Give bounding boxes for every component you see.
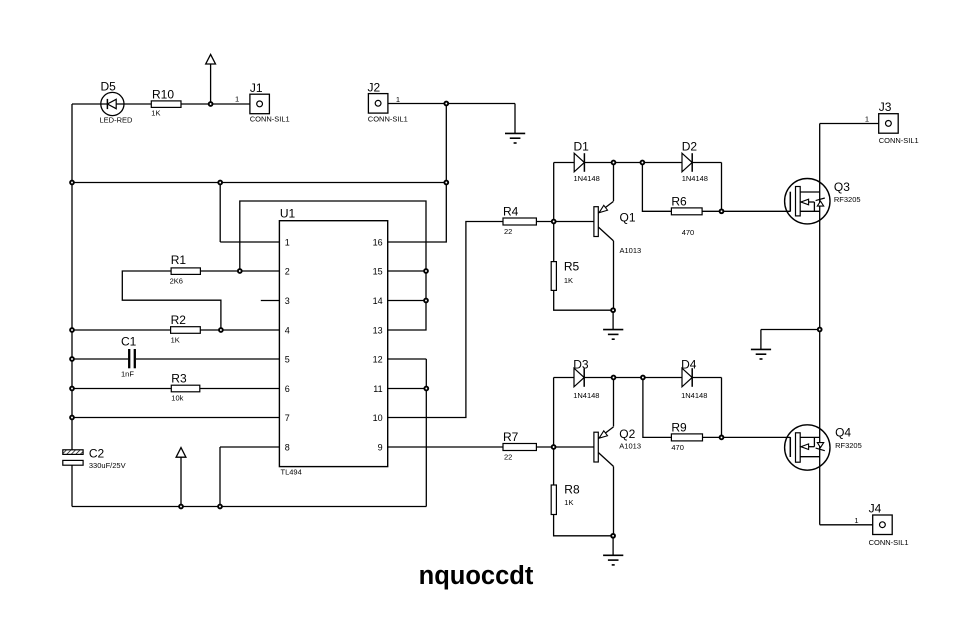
svg-text:J4: J4: [869, 502, 882, 516]
svg-text:J2: J2: [368, 81, 381, 95]
svg-text:1N4148: 1N4148: [681, 391, 707, 400]
svg-text:Q2: Q2: [619, 427, 635, 441]
svg-text:RF3205: RF3205: [834, 195, 861, 204]
svg-text:470: 470: [671, 443, 684, 452]
svg-text:Q3: Q3: [834, 180, 850, 194]
svg-text:1: 1: [285, 237, 290, 247]
svg-text:D2: D2: [682, 139, 698, 153]
svg-text:R4: R4: [503, 204, 519, 218]
svg-text:470: 470: [682, 228, 695, 237]
svg-text:J3: J3: [879, 100, 892, 114]
svg-text:330uF/25V: 330uF/25V: [89, 461, 126, 470]
svg-text:4: 4: [285, 325, 290, 335]
svg-text:7: 7: [285, 413, 290, 423]
svg-text:2: 2: [285, 266, 290, 276]
svg-text:1N4148: 1N4148: [574, 174, 600, 183]
svg-text:C2: C2: [89, 447, 105, 461]
svg-text:Q1: Q1: [620, 211, 636, 225]
svg-text:1N4148: 1N4148: [573, 391, 599, 400]
svg-text:CONN-SIL1: CONN-SIL1: [368, 115, 408, 124]
svg-text:22: 22: [504, 227, 512, 236]
svg-text:R9: R9: [671, 421, 687, 435]
svg-text:5: 5: [285, 354, 290, 364]
svg-text:A1013: A1013: [619, 441, 641, 450]
svg-text:CONN-SIL1: CONN-SIL1: [250, 115, 290, 124]
svg-text:1N4148: 1N4148: [682, 174, 708, 183]
svg-text:10: 10: [373, 413, 383, 423]
svg-text:R8: R8: [564, 482, 580, 496]
svg-text:1K: 1K: [151, 109, 160, 118]
svg-text:1: 1: [235, 94, 239, 103]
svg-text:12: 12: [373, 354, 383, 364]
svg-text:D3: D3: [573, 357, 589, 371]
svg-text:R7: R7: [503, 430, 519, 444]
svg-text:3: 3: [285, 296, 290, 306]
svg-text:RF3205: RF3205: [835, 441, 862, 450]
svg-text:1nF: 1nF: [121, 370, 134, 379]
svg-text:R6: R6: [671, 194, 687, 208]
svg-text:R2: R2: [171, 313, 187, 327]
svg-text:CONN-SIL1: CONN-SIL1: [869, 538, 909, 547]
svg-text:1: 1: [865, 114, 869, 123]
svg-text:D1: D1: [574, 139, 590, 153]
svg-text:R3: R3: [171, 372, 187, 386]
svg-text:R10: R10: [152, 87, 174, 101]
svg-text:TL494: TL494: [281, 468, 302, 477]
svg-text:Q4: Q4: [835, 426, 851, 440]
svg-text:2K6: 2K6: [170, 276, 183, 285]
svg-text:15: 15: [373, 266, 383, 276]
svg-text:11: 11: [373, 384, 382, 394]
svg-text:1K: 1K: [564, 498, 573, 507]
svg-text:1K: 1K: [171, 336, 180, 345]
svg-text:9: 9: [378, 442, 383, 452]
svg-text:C1: C1: [121, 335, 137, 349]
svg-text:LED-RED: LED-RED: [100, 116, 134, 125]
svg-text:R5: R5: [564, 259, 580, 273]
svg-text:1: 1: [396, 95, 400, 104]
svg-text:U1: U1: [280, 207, 296, 221]
svg-text:10k: 10k: [171, 394, 183, 403]
svg-text:1: 1: [854, 516, 858, 525]
svg-text:D5: D5: [101, 80, 117, 94]
svg-text:R1: R1: [171, 253, 187, 267]
svg-text:22: 22: [504, 452, 512, 461]
svg-text:A1013: A1013: [620, 246, 642, 255]
svg-text:14: 14: [373, 296, 383, 306]
svg-text:6: 6: [285, 384, 290, 394]
svg-text:nquoccdt: nquoccdt: [419, 562, 534, 590]
svg-text:8: 8: [285, 442, 290, 452]
svg-text:13: 13: [373, 325, 383, 335]
svg-text:16: 16: [373, 237, 383, 247]
svg-text:J1: J1: [250, 81, 263, 95]
svg-text:D4: D4: [681, 357, 697, 371]
svg-text:1K: 1K: [564, 276, 573, 285]
svg-text:CONN-SIL1: CONN-SIL1: [879, 136, 919, 145]
